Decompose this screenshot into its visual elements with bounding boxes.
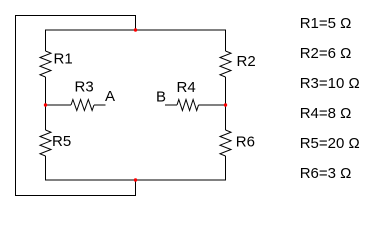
svg-text:R5=20 Ω: R5=20 Ω [300,135,360,152]
wire R3 to terminal A [94,104,106,106]
wire left node to R3 [46,104,72,106]
wire left middle (R1 to R5 through node) [45,77,47,130]
resistor R5 [40,130,51,156]
svg-text:A: A [105,88,115,105]
svg-text:R4: R4 [177,79,196,96]
svg-text:R1=5 Ω: R1=5 Ω [300,15,352,32]
svg-text:R2: R2 [237,53,256,70]
wire inner top rail [46,30,226,51]
junction dot top [134,28,137,31]
resistor R3 [71,100,94,111]
svg-text:R3=10 Ω: R3=10 Ω [300,75,360,92]
svg-text:R3: R3 [75,79,94,96]
svg-text:R2=6 Ω: R2=6 Ω [300,45,352,62]
wire inner bottom rail [46,156,226,180]
resistor R6 [220,130,231,156]
resistor R4 [177,100,199,111]
svg-text:R6: R6 [236,134,255,151]
svg-text:R5: R5 [52,133,71,150]
svg-text:R4=8 Ω: R4=8 Ω [300,105,352,122]
svg-text:B: B [156,88,166,105]
junction dot right [224,103,227,106]
wire right middle (R2 to R6 through node) [225,77,227,130]
wire R4 to right node [199,104,226,106]
resistor R1 [40,51,51,77]
junction dot left [44,103,47,106]
resistor R2 [220,51,231,77]
wire outer loop (top node to bottom node around left side) [16,16,136,196]
junction dot bottom [134,178,137,181]
svg-text:R6=3 Ω: R6=3 Ω [300,165,352,182]
wire terminal B to R4 [165,104,177,106]
svg-text:R1: R1 [54,51,73,68]
